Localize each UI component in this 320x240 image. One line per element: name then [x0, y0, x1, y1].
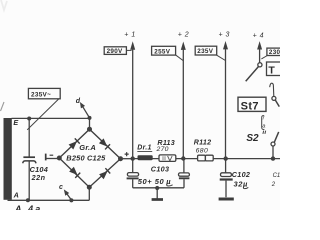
- node rail junction 3: [224, 156, 228, 160]
- box St7: [238, 97, 266, 111]
- svg-text:+ 1: + 1: [124, 32, 135, 39]
- box 230 (clipped): [267, 48, 282, 55]
- rail 2 vertical: [182, 48, 184, 159]
- capacitor C103 left half: [127, 173, 138, 177]
- svg-text:B250 C125: B250 C125: [66, 154, 106, 163]
- box 255V: [152, 46, 176, 55]
- node c-arrow junction: [69, 198, 73, 202]
- svg-text:32µ: 32µ: [234, 179, 249, 188]
- svg-text:St7: St7: [241, 100, 259, 112]
- minus terminal of bridge: [45, 154, 47, 161]
- wire main B+ rail: [133, 158, 280, 160]
- wire bridge bottom to rail: [88, 187, 90, 200]
- diode D4 bottom-right: [99, 168, 110, 179]
- svg-text:50+ 50: 50+ 50: [138, 177, 165, 186]
- node bridge bottom vertex: [87, 185, 92, 190]
- wire rail to C103 left: [132, 159, 134, 173]
- svg-text:290V: 290V: [107, 48, 123, 55]
- svg-text:A: A: [13, 191, 19, 200]
- svg-text:C1: C1: [273, 173, 280, 179]
- svg-text:+ 3: + 3: [219, 32, 230, 39]
- node rail junction 4: [271, 156, 275, 160]
- wire bridge to main rail: [121, 158, 133, 160]
- ground: [156, 188, 158, 199]
- box T (clipped): [267, 62, 283, 76]
- plus sign at bridge output: [125, 152, 129, 156]
- capacitor C104: [23, 156, 35, 158]
- connection arrow c: [65, 191, 71, 200]
- node bridge right vertex: [118, 156, 123, 161]
- svg-text:270: 270: [156, 146, 169, 153]
- svg-text:d: d: [76, 98, 81, 105]
- resistor bar (mains dropper) E-A: [4, 118, 12, 200]
- svg-text:S2: S2: [246, 133, 259, 144]
- wire rail to C103 right: [183, 158, 185, 172]
- diode D1 top-left: [68, 138, 79, 149]
- svg-text:C103: C103: [151, 164, 170, 173]
- svg-text:Dr.1: Dr.1: [137, 145, 151, 152]
- svg-text:+ 4: + 4: [253, 33, 264, 40]
- svg-text:A 4a: A 4a: [14, 204, 42, 210]
- resistor R112 (two cells): [198, 155, 206, 161]
- switch contact S2 middle: [272, 96, 276, 100]
- box 235V~: [28, 88, 60, 98]
- capacitor C103 right half: [179, 173, 190, 176]
- svg-text:680: 680: [196, 147, 209, 154]
- leader 235V~: [27, 99, 59, 130]
- wire bottom-left rail: [8, 199, 90, 201]
- node d junction: [88, 116, 92, 120]
- svg-text:C102: C102: [232, 170, 251, 179]
- wire to bridge top: [89, 118, 91, 129]
- connection arrow d: [81, 104, 89, 118]
- switch contact S2 lower: [271, 142, 275, 146]
- svg-text:µ: µ: [165, 177, 171, 186]
- capacitor C102: [221, 173, 232, 177]
- diode D3 bottom-left: [69, 167, 80, 178]
- choke Dr.1: [138, 155, 153, 160]
- node bridge top vertex: [87, 127, 92, 132]
- switch contact S2 upper: [258, 63, 262, 67]
- ground C102: [219, 198, 234, 201]
- svg-text:a: a: [262, 124, 265, 130]
- svg-text:22n: 22n: [31, 173, 46, 182]
- wire C104 lead down: [28, 119, 30, 157]
- wire ground rail: [133, 187, 184, 189]
- svg-text:230: 230: [269, 49, 280, 56]
- svg-text:+ 2: + 2: [178, 32, 189, 39]
- box 235V: [195, 46, 217, 55]
- svg-text:255V: 255V: [154, 48, 170, 55]
- rail 4 (switch feed): [259, 47, 261, 62]
- node C104 bottom: [26, 198, 30, 202]
- wire C104 to bottom rail: [28, 161, 30, 200]
- svg-text:Gr.A: Gr.A: [79, 143, 96, 152]
- faint left-edge slash: [1, 102, 5, 111]
- resistor R113: [159, 155, 176, 162]
- bridge rectifier Gr.A diamond: [59, 129, 120, 187]
- node ground stub: [155, 186, 159, 190]
- rail 3 vertical: [225, 47, 227, 158]
- node junction C104/top: [27, 117, 31, 121]
- node rail junction 2: [181, 156, 185, 160]
- wire C102 to ground: [225, 181, 227, 198]
- node rail junction 1: [131, 156, 135, 160]
- svg-text:235V~: 235V~: [31, 91, 51, 98]
- contact bracket a: [262, 116, 265, 130]
- diode D2 top-right: [99, 138, 110, 149]
- svg-text:2: 2: [271, 182, 276, 188]
- wire top rail: [12, 117, 90, 119]
- svg-text:R112: R112: [194, 138, 212, 146]
- svg-text:T: T: [268, 65, 275, 77]
- rail 1 vertical: [132, 48, 134, 159]
- box 290V: [104, 47, 126, 55]
- wire rail to C102: [225, 159, 227, 173]
- contact bracket f: [270, 83, 274, 96]
- svg-text:c: c: [59, 184, 63, 191]
- svg-text:235V: 235V: [197, 48, 213, 55]
- svg-text:E: E: [13, 118, 18, 127]
- faint corner mark: [1, 0, 7, 10]
- node bridge left vertex: [57, 156, 62, 161]
- svg-text:r: r: [263, 115, 265, 121]
